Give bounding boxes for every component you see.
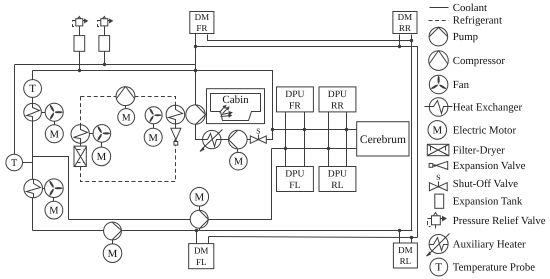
- svg-text:DPU: DPU: [285, 169, 304, 180]
- svg-text:RR: RR: [331, 100, 344, 111]
- legend temperature probe symbol: [430, 258, 448, 276]
- svg-text:M: M: [122, 112, 131, 123]
- wire pump P2 to shut-off valve: [248, 139, 251, 141]
- electric motor MP2: [230, 152, 248, 170]
- electric motor M3: [45, 201, 63, 219]
- legend fan symbol: [429, 75, 448, 94]
- svg-text:Expansion Tank: Expansion Tank: [453, 196, 523, 208]
- junction dot DM RR right pin: [410, 39, 413, 42]
- svg-text:M: M: [49, 206, 58, 217]
- wire DPU lower bus (y=148.4) to Cerebrum: [272, 148, 357, 150]
- pump P3: [190, 210, 208, 228]
- svg-text:Shut-Off Valve: Shut-Off Valve: [453, 178, 518, 190]
- junction dot DM RR left pin on bus2: [398, 45, 401, 48]
- wire chiller to fan F2: [90, 133, 94, 135]
- svg-text:Temperature Probe: Temperature Probe: [453, 262, 535, 274]
- svg-text:Filter-Dryer: Filter-Dryer: [453, 145, 505, 157]
- legend compressor symbol: [429, 51, 449, 71]
- wire HX3 bottom down to bottom bus 1: [32, 198, 34, 231]
- svg-text:Electric Motor: Electric Motor: [453, 124, 517, 136]
- svg-text:DPU: DPU: [328, 89, 347, 100]
- svg-text:S: S: [256, 126, 260, 135]
- wire DPU FR left pin column: [285, 112, 287, 167]
- svg-text:Auxiliary Heater: Auxiliary Heater: [453, 239, 526, 251]
- pump P2: [229, 130, 248, 149]
- junction dot DM RL left pin on bus1: [398, 229, 401, 232]
- refrigerant line condenser drop: [80, 97, 82, 125]
- junction dot DM FL left pin on bus1: [195, 229, 198, 232]
- wire T2 stub: [23, 162, 33, 164]
- wire bus B drop to temperature probe T1: [32, 71, 34, 80]
- wire bottom bus 3 (y=219.2): [69, 149, 272, 220]
- svg-text:DM: DM: [195, 12, 210, 22]
- electric motor MB: [144, 128, 162, 146]
- svg-text:Expansion Valve: Expansion Valve: [453, 160, 526, 172]
- svg-text:M: M: [234, 157, 243, 168]
- svg-text:DM: DM: [398, 12, 413, 22]
- legend shut-off valve symbol: [429, 173, 447, 191]
- svg-text:RL: RL: [331, 180, 343, 191]
- svg-text:RL: RL: [400, 256, 412, 266]
- wire top bus 2 (y=46.6) with right outer drop: [196, 47, 418, 238]
- module box DPU FL: [277, 167, 314, 192]
- fan F1: [45, 103, 63, 121]
- legend pressure relief valve symbol: [428, 213, 447, 229]
- wire DPU FR right pin column: [304, 112, 306, 167]
- wire blower to motor MB: [153, 124, 155, 129]
- electric motor MP3: [190, 188, 209, 207]
- fan F2: [93, 125, 111, 143]
- junction dot DPU RR right pin on upper bus: [345, 128, 348, 131]
- module box DM FL: [189, 244, 214, 269]
- svg-text:FR: FR: [289, 100, 301, 111]
- refrigerant line compressor left: [81, 96, 117, 98]
- heat exchanger HX3 (lower radiator): [24, 179, 43, 198]
- wire DM FL left pin: [196, 231, 198, 244]
- wire vertical from bus A junction down to pump P1: [195, 65, 197, 105]
- heat exchanger HX4 (cabin evaporator): [166, 105, 185, 124]
- svg-text:Pressure Relief Valve: Pressure Relief Valve: [453, 215, 546, 227]
- module box DPU RL: [319, 167, 356, 192]
- wire compressor to motor MC: [125, 106, 127, 109]
- svg-text:M: M: [97, 151, 107, 163]
- wire relief valve V2 to tank 2: [104, 29, 106, 36]
- wire bottom bus 1 (y=231): [33, 230, 413, 232]
- expansion tank 2: [99, 36, 110, 52]
- wire chiller to filter-dryer: [80, 144, 82, 147]
- junction dot DPU FR left pin on lower bus: [284, 147, 287, 150]
- wire HX1 to fan F1: [42, 112, 46, 114]
- junction dot DM FR left pin on bus2: [194, 45, 197, 48]
- wire top bus 1 (DM FR right pin to DM RR right pin): [208, 35, 412, 41]
- wire tank 1 pin to bus B: [79, 52, 81, 71]
- svg-text:FL: FL: [196, 257, 207, 267]
- module box DM RL: [393, 243, 417, 268]
- temperature probe T2: [6, 154, 23, 171]
- wire pump P3 to bottom bus 1: [199, 229, 201, 231]
- junction dot tank 2 pin on bus A: [103, 63, 106, 66]
- svg-text:RR: RR: [399, 23, 411, 33]
- junction dot DM RL right pin on bus2: [410, 236, 413, 239]
- legend heat exchanger symbol: [425, 98, 453, 117]
- wire DM RR left pin: [399, 35, 401, 47]
- wire bottom bus 2 (y=237.1): [209, 237, 418, 238]
- svg-text:FR: FR: [196, 23, 207, 33]
- legend auxiliary heater symbol: [427, 234, 450, 257]
- pressure relief valve V1: [73, 17, 88, 29]
- wire left outer vertical (bus A to temperature probe T2): [14, 65, 16, 155]
- wire HX3 to fan F3: [43, 188, 45, 190]
- wire DPU upper bus (y=129.8) to Cerebrum: [273, 129, 357, 131]
- wire DM FR left pin down to bus A: [195, 34, 197, 65]
- svg-text:T: T: [11, 158, 18, 169]
- module box DM RR: [393, 12, 417, 34]
- heat exchanger HX1 (front radiator): [24, 103, 42, 121]
- svg-text:Coolant: Coolant: [453, 2, 487, 14]
- heat exchanger HX2 (chiller, on refrigerant loop): [71, 125, 89, 144]
- legend filter-dryer symbol: [427, 144, 449, 155]
- legend expansion tank symbol: [435, 194, 444, 208]
- wire aux heater to pump P2: [221, 139, 229, 141]
- wire pump P4 to motor MP4: [112, 240, 114, 245]
- wire pump P2 to motor MP2: [237, 149, 239, 153]
- wire DM FL right pin: [208, 237, 210, 244]
- svg-text:M: M: [50, 129, 60, 140]
- svg-text:Cabin: Cabin: [222, 94, 249, 106]
- svg-text:DM: DM: [194, 246, 209, 256]
- svg-text:Compressor: Compressor: [453, 55, 506, 67]
- wire HX1 down to junction row: [32, 121, 34, 180]
- wire tank 2 pin to bus A: [104, 52, 106, 65]
- svg-text:Heat Exchanger: Heat Exchanger: [453, 102, 523, 114]
- filter-dryer FD: [74, 146, 87, 166]
- wire fan F1 to motor M1: [54, 122, 56, 125]
- wire DPU RR right pin column: [346, 112, 348, 167]
- legend refrigerant line: [429, 20, 449, 22]
- svg-text:M: M: [194, 192, 204, 204]
- svg-text:S: S: [436, 173, 440, 182]
- wire DM RL right pin: [411, 238, 413, 243]
- wire long vertical DM RR right pin down to bottom bus: [411, 41, 413, 231]
- pump P1 (cabin heater loop): [186, 105, 206, 125]
- wire branch y=156.6 to vertical x=68.4: [33, 157, 69, 220]
- legend expansion valve symbol: [429, 161, 448, 169]
- legend electric motor symbol: [428, 121, 447, 140]
- module box Cerebrum: [357, 122, 409, 156]
- junction dot x=195 on bus B: [194, 69, 197, 72]
- wire motor MP3 to pump P3: [199, 207, 201, 211]
- svg-text:Cerebrum: Cerebrum: [360, 134, 406, 146]
- shut-off valve SV: [250, 126, 266, 143]
- wire shut-off valve to junction x=272: [267, 130, 273, 140]
- electric motor MP4: [103, 244, 122, 263]
- auxiliary heater AH: [200, 130, 223, 152]
- svg-text:T: T: [29, 83, 36, 95]
- module box DM FR: [190, 12, 214, 34]
- temperature probe T1: [24, 80, 42, 98]
- svg-text:M: M: [432, 125, 442, 137]
- pressure relief valve V2: [98, 17, 113, 29]
- svg-text:DPU: DPU: [285, 89, 304, 100]
- electric motor M1: [45, 125, 63, 143]
- svg-text:Pump: Pump: [453, 31, 478, 43]
- wire evaporator to expansion valve: [175, 124, 177, 129]
- compressor CP: [116, 87, 135, 106]
- wire bus B (y=71.0): [33, 71, 273, 130]
- svg-text:M: M: [149, 133, 159, 144]
- legend pump symbol: [429, 27, 448, 46]
- legend coolant line: [430, 7, 449, 9]
- electric motor M2: [92, 147, 111, 166]
- svg-text:DPU: DPU: [328, 169, 347, 180]
- fan F3: [45, 179, 64, 198]
- junction dot tank 1 pin on bus B: [78, 69, 81, 72]
- refrigerant line compressor right to evaporator: [135, 97, 176, 106]
- wire T1 to radiator HX1: [32, 98, 34, 104]
- wire bus A (y=64.8): [15, 64, 196, 66]
- wire fan F3 to motor M3: [53, 198, 55, 202]
- wire relief valve V1 to tank 1: [79, 29, 81, 36]
- svg-text:Refrigerant: Refrigerant: [453, 15, 502, 27]
- pump P4: [104, 222, 122, 240]
- wire pump P1 down to heater line: [196, 125, 203, 140]
- refrigerant line filter-dryer to expansion valve: [81, 146, 176, 182]
- wire DM RL left pin: [399, 231, 401, 243]
- expansion tank 1: [74, 36, 85, 52]
- expansion valve EXV: [171, 128, 181, 145]
- junction dot DPU FR right pin on upper bus: [303, 128, 306, 131]
- wire fan F2 to motor M2: [101, 143, 103, 148]
- junction dot DPU RR left pin on lower bus: [327, 147, 330, 150]
- electric motor MC: [118, 109, 135, 126]
- cabin box with airflow arrows: [207, 89, 265, 124]
- svg-text:M: M: [108, 248, 118, 260]
- svg-text:DM: DM: [398, 245, 413, 255]
- svg-text:T: T: [435, 262, 442, 274]
- svg-text:Fan: Fan: [453, 79, 470, 91]
- wire pump P1 to cabin: [206, 114, 207, 116]
- svg-text:FL: FL: [289, 180, 300, 191]
- junction dot upper bus at x=272: [271, 128, 274, 131]
- module box DPU RR: [319, 87, 356, 112]
- fan F4 (cabin blower): [145, 107, 162, 124]
- wire DPU RR left pin column: [328, 112, 330, 167]
- module box DPU FR: [277, 87, 314, 112]
